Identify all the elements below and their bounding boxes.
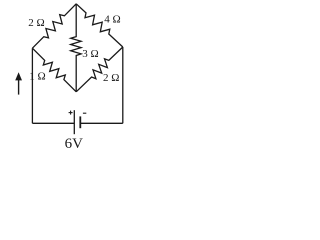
resistor 3Ω middle vertical (between top apex and bottom node) [71,4,81,92]
svg-text:2 Ω: 2 Ω [28,17,44,29]
wire bottom-left horizontal (corner to battery + plate) [32,122,74,124]
wire right vertical (bottom-right corner up to right node) [122,47,124,123]
battery + polarity mark [69,111,73,115]
svg-text:4 Ω: 4 Ω [104,13,120,25]
svg-text:1 Ω: 1 Ω [29,71,45,83]
resistor 4Ω top-right (between top apex and right node) [76,4,123,47]
wire left vertical (left node down to bottom-left corner) [31,48,33,123]
wire bottom-right horizontal (battery - plate to corner) [80,122,123,124]
battery B1 positive plate (long) [73,110,75,134]
current direction arrow (up) [15,72,22,94]
svg-text:3 Ω: 3 Ω [82,48,98,60]
battery - polarity mark [83,112,86,114]
battery B1 negative plate (short) [79,116,81,128]
svg-text:6V: 6V [65,136,84,152]
resistor 1Ω bottom-left (between left node and bottom node) [32,48,76,92]
svg-text:2 Ω: 2 Ω [103,72,119,84]
resistor 2Ω bottom-right (between right node and bottom node) [76,47,123,92]
resistor 2Ω top-left (between top apex and left node) [32,4,76,48]
